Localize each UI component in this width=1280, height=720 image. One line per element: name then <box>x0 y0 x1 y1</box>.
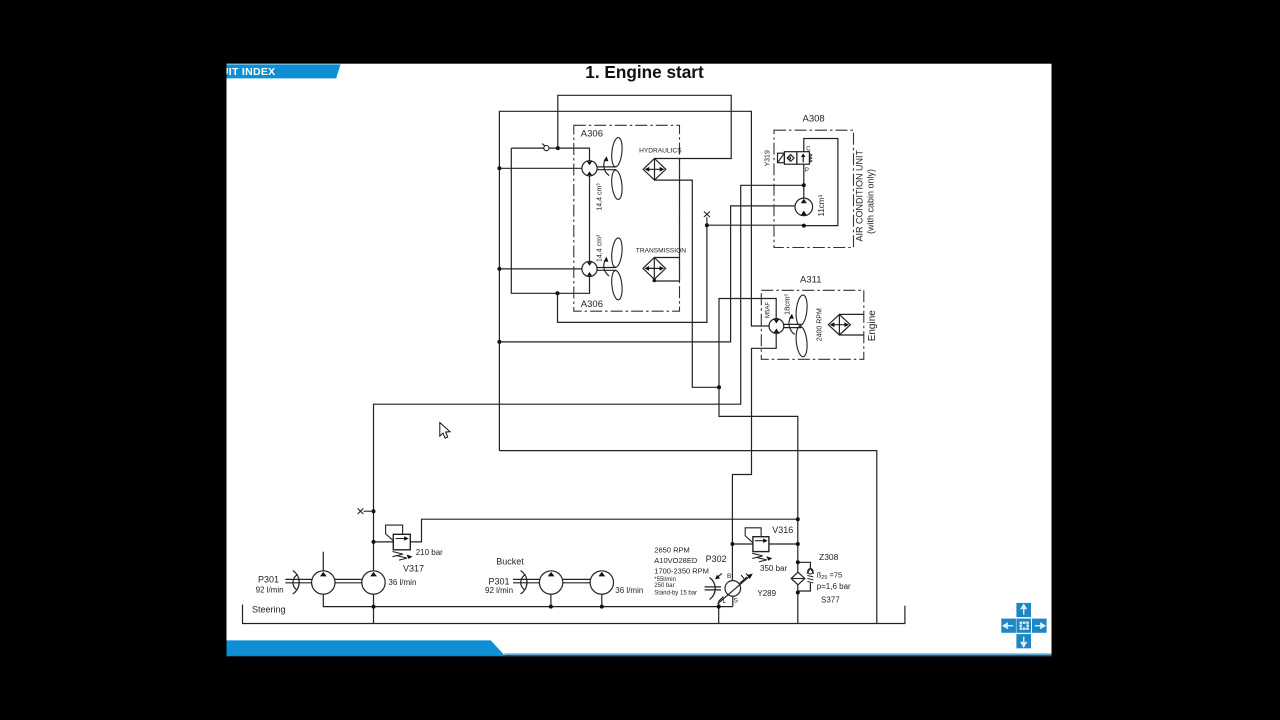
svg-text:S377: S377 <box>821 596 840 605</box>
fan motor M1 A306 top <box>582 161 616 176</box>
wire steering stub left <box>243 605 905 624</box>
wire A308 valve loop <box>804 139 838 226</box>
wire A306 inner rectangle <box>511 148 589 161</box>
fan motor M2 A306 bottom <box>582 261 616 276</box>
node motor bottom <box>802 224 806 228</box>
A306 box <box>574 125 680 311</box>
node bucket pump1 drain <box>549 605 553 609</box>
svg-text:Bucket: Bucket <box>496 556 524 566</box>
svg-text:210 bar: 210 bar <box>416 548 443 557</box>
wire X-net to motor bottom <box>558 225 804 322</box>
wire V317 left port <box>374 541 394 543</box>
solenoid valve Y319 <box>778 152 812 165</box>
wire between fan motors <box>589 176 591 262</box>
svg-text:ß25 =75: ß25 =75 <box>817 571 843 582</box>
relief valve V316 <box>745 528 772 562</box>
svg-text:36 l/min: 36 l/min <box>615 586 643 595</box>
svg-text:36 l/min: 36 l/min <box>388 578 416 587</box>
svg-text:C: C <box>806 147 811 153</box>
node filter line top <box>796 517 800 521</box>
wire to tank right <box>499 451 876 624</box>
svg-text:A311: A311 <box>800 275 821 286</box>
svg-text:TRANSMISSION: TRANSMISSION <box>636 248 686 255</box>
fan blades F2 <box>604 237 624 300</box>
node bucket pump2 drain <box>600 605 604 609</box>
wire W2 supply <box>499 111 769 450</box>
svg-text:11cm³: 11cm³ <box>817 195 826 217</box>
fan blades F1 <box>604 137 624 200</box>
navigation cross <box>1001 603 1046 648</box>
svg-text:*55l/min: *55l/min <box>654 577 676 583</box>
svg-text:1700-2350 RPM: 1700-2350 RPM <box>654 566 709 575</box>
svg-text:p=1,6 bar: p=1,6 bar <box>817 582 851 591</box>
wire steering vert through circle <box>373 594 375 623</box>
svg-text:(with cabin only): (with cabin only) <box>865 169 875 234</box>
motor 11cm A308 <box>795 198 813 216</box>
svg-text:2650 RPM: 2650 RPM <box>654 546 689 555</box>
svg-text:S: S <box>734 597 739 604</box>
wire V317 to filter line <box>410 519 798 542</box>
node inner rect bottom <box>556 291 560 295</box>
node X plug left junction <box>372 509 376 513</box>
node filter bypass bottom <box>796 591 800 595</box>
svg-text:2400 RPM: 2400 RPM <box>816 308 823 341</box>
wire Z308 bypass <box>798 562 811 568</box>
svg-text:P: P <box>805 168 809 174</box>
svg-text:A10VO28ED: A10VO28ED <box>654 556 698 565</box>
node steering drain junction <box>372 605 376 609</box>
svg-text:AIR CONDITION UNIT: AIR CONDITION UNIT <box>855 149 865 241</box>
wire steering pump shaft top stub <box>322 552 324 571</box>
node pump inlet top <box>556 146 560 150</box>
node fan motor 1 inlet <box>497 166 501 170</box>
svg-text:Y319: Y319 <box>765 150 772 166</box>
svg-text:P302: P302 <box>706 554 727 564</box>
svg-text:M5AF: M5AF <box>765 302 771 318</box>
hydraulics diamond <box>643 159 666 181</box>
svg-text:V317: V317 <box>403 564 424 574</box>
filter Z308 <box>791 568 814 584</box>
svg-text:92 l/min: 92 l/min <box>485 586 513 595</box>
svg-text:18cm³: 18cm³ <box>783 294 792 315</box>
svg-text:A306: A306 <box>581 129 603 140</box>
A308 box <box>774 130 854 247</box>
svg-text:250 bar: 250 bar <box>654 583 674 589</box>
wire hydraulics diamond to down <box>655 180 720 387</box>
X plug symbol top <box>704 212 710 226</box>
node wire B junction <box>497 340 501 344</box>
svg-text:A308: A308 <box>803 114 825 125</box>
node V317 inlet junction <box>372 540 376 544</box>
relief valve V317 <box>386 525 413 560</box>
page <box>227 64 1052 657</box>
wire V316 left port <box>732 543 753 545</box>
node transmission bottom <box>653 279 657 283</box>
svg-text:Steering: Steering <box>252 605 286 615</box>
svg-text:14,4 cm³: 14,4 cm³ <box>597 183 604 211</box>
engine diamond A311 <box>828 314 850 335</box>
steering pump circle 1 <box>285 571 361 595</box>
fan blades A311 <box>789 295 809 358</box>
wire transmission diamond top <box>654 257 679 259</box>
wire fan motor 1 inlet <box>499 167 582 169</box>
wire P302 L port <box>718 602 720 624</box>
wire A311 diamond to engine top <box>839 313 863 315</box>
mouse cursor <box>440 423 450 439</box>
svg-text:350 bar: 350 bar <box>760 564 787 573</box>
bottom thin blue strip <box>504 653 1051 655</box>
wire W1 top loop <box>558 95 731 158</box>
header ribbon <box>227 64 341 78</box>
node fan motor 2 inlet <box>497 267 501 271</box>
svg-text:P301: P301 <box>489 576 510 586</box>
svg-text:Z308: Z308 <box>819 552 839 562</box>
bottom navy strip <box>227 655 1052 657</box>
wire A311 pump bottom jog <box>732 333 776 581</box>
pump M5AF A311 <box>769 319 802 334</box>
vent circle on A306 inlet <box>542 144 549 151</box>
wire V316 right port <box>769 543 798 545</box>
node X plug junction <box>705 223 709 227</box>
svg-text:P301: P301 <box>258 574 279 584</box>
wire A311 pump top <box>719 299 798 624</box>
wire fan motor 2 inlet <box>499 268 582 270</box>
wire bucket pump1 bottom stub <box>550 594 552 607</box>
svg-text:L: L <box>723 598 727 605</box>
bucket pump circle 2 <box>590 571 613 594</box>
node P302 L drain <box>717 605 721 609</box>
wire transmission diamond bottom <box>654 279 679 281</box>
X plug symbol left <box>358 508 374 514</box>
svg-text:V316: V316 <box>772 525 793 535</box>
steering pump circle 2 <box>362 571 385 594</box>
pump P302 <box>705 573 753 603</box>
bottom blue band <box>227 640 505 655</box>
svg-text:Stand-by 15 bar: Stand-by 15 bar <box>654 591 697 597</box>
svg-text:Y289: Y289 <box>757 589 776 598</box>
svg-text:1. Engine start: 1. Engine start <box>585 62 704 82</box>
wire A relief branch <box>374 185 804 571</box>
wire P302 S port <box>732 596 734 606</box>
wire drain line <box>323 594 733 606</box>
A311 box <box>761 290 864 359</box>
node valve P junction <box>802 183 806 187</box>
svg-text:Engine: Engine <box>867 310 878 342</box>
svg-text:A306: A306 <box>581 299 603 310</box>
wire A311 diamond to engine bottom <box>839 334 863 336</box>
node filter bypass top <box>796 560 800 564</box>
transmission diamond <box>643 258 666 280</box>
wire bucket pump2 bottom stub <box>601 594 603 607</box>
wire B motor left <box>499 206 795 342</box>
svg-text:B: B <box>727 573 731 580</box>
node V316 inlet junction <box>730 542 734 546</box>
wire A306 right edge solid segment <box>679 159 681 282</box>
wire A308 valve P to motor <box>803 164 805 198</box>
svg-text:14,4 cm³: 14,4 cm³ <box>597 234 604 262</box>
node diamond drain junction <box>717 385 721 389</box>
node V316 outlet junction <box>796 542 800 546</box>
svg-text:HYDRAULICS: HYDRAULICS <box>639 147 682 154</box>
bucket pump circle 1 <box>513 571 590 595</box>
svg-text:92 l/min: 92 l/min <box>256 586 284 595</box>
